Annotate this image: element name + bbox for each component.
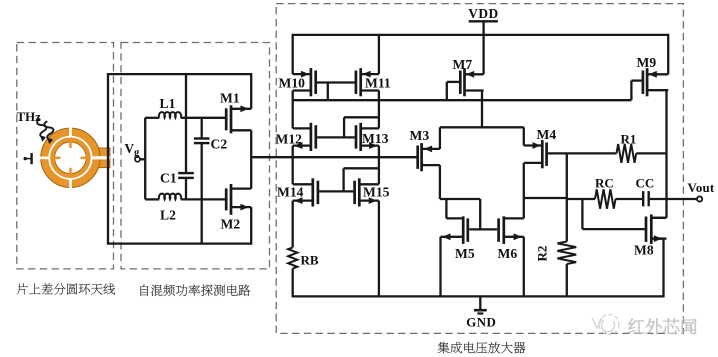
wire: Vg to bias column [140, 158, 145, 160]
svg-text:GND: GND [466, 315, 496, 329]
svg-text:V: V [125, 141, 135, 156]
wire: M11 drain to M13 source (crosses bias rail) [378, 91, 380, 129]
resistor R2 [557, 242, 576, 265]
wire: M12/M13 gate tie vertical [343, 117, 345, 137]
transistor M5 [441, 216, 468, 244]
antenna inner cross ticks [69, 141, 72, 148]
wire: CC to Vout [649, 198, 697, 200]
svg-text:C2: C2 [211, 136, 228, 151]
wire: C2 to bottom edge [201, 143, 203, 244]
wire: bias gate rail [293, 99, 632, 101]
wire: M12-M13 gate line [317, 136, 355, 138]
wire: M8 source down to ground rail [662, 239, 664, 298]
svg-text:M4: M4 [537, 127, 557, 142]
wire: M14/M15 gate tie vertical [342, 168, 344, 191]
wire: M13 drain to signal wire [378, 146, 380, 158]
inductor L1 [145, 117, 159, 119]
wire: M7 gate lead [447, 81, 459, 83]
ground symbol GND [479, 296, 481, 309]
capacitor CC [642, 191, 644, 206]
wire: VDD down to M7 source [482, 21, 484, 74]
svg-text:C1: C1 [160, 170, 177, 185]
resistor R1 [617, 144, 637, 163]
transistor M3 [418, 143, 440, 171]
wire: M14 source down to RB [292, 201, 294, 248]
svg-text:M2: M2 [221, 217, 241, 232]
wire: M8 drain lead [653, 217, 667, 219]
svg-text:M8: M8 [634, 243, 654, 258]
wire: M12 drain to M14 drain (crosses signal wire) [292, 146, 294, 185]
wire: M7 gate to bias rail [446, 82, 448, 100]
wire: M10-M11 gate line [317, 81, 355, 83]
wire: rail down to M11 source [378, 35, 380, 74]
wire: M6 source to ground rail [523, 237, 525, 298]
svg-text:RB: RB [301, 252, 319, 267]
wire: M9 drain / R1 right / CC right / M8 drain column [665, 90, 667, 218]
wire: M4 drain down to M6 drain [523, 163, 525, 219]
wire: detector left edge (antenna feed node) [107, 74, 109, 244]
resistor RB [288, 247, 297, 268]
wire: M12/M13 gate tie horizontal [344, 116, 379, 118]
wire: top edge to C1 [185, 74, 187, 173]
transistor M2 [226, 184, 251, 215]
node Vg [135, 157, 140, 162]
transistor M9 [643, 68, 668, 96]
antenna ring (on-chip differential ring antenna) [39, 127, 110, 189]
svg-text:M12: M12 [276, 132, 303, 147]
wire: feedback node to RC [567, 198, 595, 200]
wire: ground rail [292, 295, 664, 297]
svg-text:M5: M5 [455, 246, 475, 261]
transistor M11 [356, 68, 379, 96]
wire: top supply rail [292, 34, 669, 36]
svg-text:R2: R2 [535, 246, 550, 262]
wire: down to M5/M6 gate line [479, 199, 481, 229]
wire: M3 drain across to mirror diode [440, 198, 480, 200]
wire: M15 source down to ground rail [378, 201, 380, 298]
wire: up-tap to M5 drain [445, 199, 447, 218]
wire: L2 to M2 gate [181, 198, 225, 200]
svg-text:M3: M3 [410, 128, 430, 143]
svg-text:M13: M13 [362, 131, 389, 146]
caption: on-chip differential ring antenna [17, 283, 115, 294]
transistor M8 [646, 214, 667, 244]
svg-text:g: g [134, 148, 140, 159]
wire: RB to ground rail [292, 269, 294, 297]
THz incident wave squiggle [36, 116, 56, 145]
wire: M10 drain to M12 source [292, 91, 294, 129]
wire: M3 drain down [439, 165, 441, 199]
transistor M12 [293, 123, 316, 151]
svg-text:M14: M14 [277, 185, 304, 200]
wire: M9 gate lead [631, 79, 641, 81]
amplifier dashed box [276, 4, 683, 334]
wire: M7 drain down to diff pair (crosses bias rail) [481, 91, 483, 128]
antenna dashed box [17, 43, 114, 269]
wire: M6 drain tap to feedback node [524, 197, 567, 199]
inductor L2 [145, 198, 159, 200]
wire: M14-M15 gate line [319, 190, 353, 192]
node Vout [697, 196, 702, 201]
svg-text:M9: M9 [637, 55, 657, 70]
wire: M8 gate line [582, 228, 644, 230]
wire: gate line to bias rail [327, 83, 329, 101]
wire: M2 source to bottom edge [250, 207, 252, 245]
wire: Vg bias column (L1 to L2) [144, 118, 146, 200]
resistor RC [595, 189, 616, 208]
wire: rail down to M10 source [292, 35, 294, 74]
wire: diff pair common source rail [440, 126, 524, 128]
wire: M5-M6 gate line [469, 228, 497, 230]
transistor M1 [226, 105, 251, 133]
svg-text:M1: M1 [220, 90, 240, 105]
wire: R2 to ground rail [566, 264, 568, 296]
svg-text:R1: R1 [621, 131, 637, 146]
wire: feedback node vertical (R1 left to R2 top) [566, 153, 568, 241]
wire: M14/M15 gate tie horizontal [344, 167, 379, 169]
svg-text:L1: L1 [160, 96, 176, 111]
antenna feed port symbol [24, 153, 32, 164]
wire: rail down to M9 source [667, 34, 669, 75]
transistor M6 [499, 216, 524, 244]
wire: M8 source lead [653, 237, 664, 239]
transistor M10 [293, 68, 316, 96]
wire: bias rail up to M9 gate [630, 81, 632, 101]
svg-text:M11: M11 [365, 76, 391, 91]
svg-text:L2: L2 [160, 207, 176, 222]
wire: M8 gate up to RC node [581, 199, 583, 229]
wire: detector top edge [107, 73, 251, 75]
svg-text:Vout: Vout [688, 181, 715, 195]
wire: C1 to L2 wire [185, 178, 187, 200]
transistor M7 [460, 68, 483, 96]
wire: common rail to M4 source [523, 127, 525, 145]
svg-text:M10: M10 [279, 76, 306, 91]
svg-text:CC: CC [636, 175, 655, 190]
wire: M4 gate to R1 [548, 152, 617, 154]
transistor M13 [356, 123, 379, 151]
wire: L1 to M1 gate [181, 117, 225, 119]
svg-text:M6: M6 [498, 246, 518, 261]
detector dashed box [121, 43, 270, 269]
wire: M5 source to ground rail [439, 237, 441, 298]
svg-text:M15: M15 [363, 185, 390, 200]
svg-text:RC: RC [595, 175, 614, 190]
watermark text 红外芯闻 [628, 318, 696, 334]
caption: integrated voltage amplifier [438, 342, 526, 354]
wire: L1 wire to C2 [201, 118, 203, 139]
wire: M1 source to top edge [250, 73, 252, 109]
svg-text:VDD: VDD [468, 6, 499, 21]
wire: R1 to output column [636, 152, 666, 154]
wire: RC to CC [616, 198, 644, 200]
wire: common rail to M3 source [439, 127, 441, 149]
transistor M4 [524, 140, 547, 168]
svg-text:M7: M7 [453, 57, 473, 72]
watermark logo [592, 315, 619, 335]
wire: M1 drain to M2 drain (output node) [250, 130, 252, 188]
wire: detector bottom edge [107, 242, 251, 244]
VDD bar [469, 20, 498, 22]
caption: self-mixing power detection circuit [140, 284, 250, 296]
transistor M14 [293, 178, 318, 206]
wire: signal wire to M15 drain [378, 157, 380, 184]
wire: detector output to M3 gate (signal) [251, 156, 417, 158]
transistor M15 [355, 178, 379, 206]
